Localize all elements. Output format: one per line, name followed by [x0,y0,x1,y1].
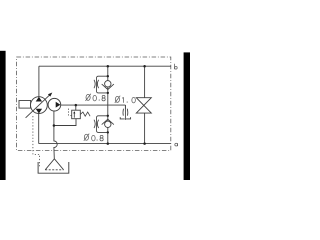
tank T1 [38,162,69,173]
node: middle wire / relief junction [75,104,78,107]
wire: hourglass valve bottom [144,113,146,144]
check/orifice assembly A2 [94,115,114,134]
node: b-line / hourglass junction [143,65,146,68]
orifice arcs [94,80,99,88]
port label b [175,64,178,70]
junction dots [107,75,109,77]
wire: check stack vertical line [107,66,109,143]
label Ø0.8 (A1) [86,94,106,101]
bypass loop [96,116,107,133]
wire: pump bottom port down to a-line [38,113,40,143]
enclosure dash-dot boundary [17,57,171,150]
pump P2 charge pump [48,98,61,111]
relief valve V1 [69,107,91,119]
left black scan bar [0,51,6,180]
wire: relief valve inlet drop [75,105,77,110]
flow arrow inside [73,112,75,117]
check/orifice assembly A1 [94,75,114,94]
bypass loop [96,76,107,93]
wire: middle charge line [61,104,126,106]
check valve ball [105,81,111,87]
flow triangle down [36,109,42,114]
check valve seat [102,119,114,124]
spring [80,112,90,116]
variable displacement arrow [26,94,51,118]
drain dashed line from pump control [33,116,40,166]
pump P1 variable displacement (main) [19,93,52,118]
orifice O3 dead-end [120,105,130,120]
node: relief drain / suction junction [53,124,56,127]
strainer [45,159,63,170]
node: b-line / check stack junction [107,65,110,68]
node: a-line / check stack junction [107,142,110,145]
check valve ball [105,121,111,127]
junction dots [107,115,109,117]
wire: charge pump suction with hop over a-line [54,111,57,159]
wire: hourglass valve top [144,66,146,98]
wire: middle line corner down to orifice [124,105,126,109]
shaft box [19,101,31,109]
flow triangle up [36,97,42,102]
wire: top b-line [39,65,171,67]
label Ø1.0 [115,96,136,103]
label Ø0.8 (A2) [84,134,103,141]
wire: pump top port up to b-line [38,66,40,97]
flow triangle right [56,102,61,108]
pilot dashed line [69,107,72,115]
port label a [175,143,178,146]
orifice arcs [94,120,99,128]
wire: bottom a-line [39,143,171,145]
node: a-line / hourglass junction [143,142,146,145]
check valve seat [102,84,114,89]
right black scan bar [184,52,190,180]
wire: relief valve drain to suction [54,119,76,126]
shutoff valve V2 (hourglass) [136,98,151,113]
